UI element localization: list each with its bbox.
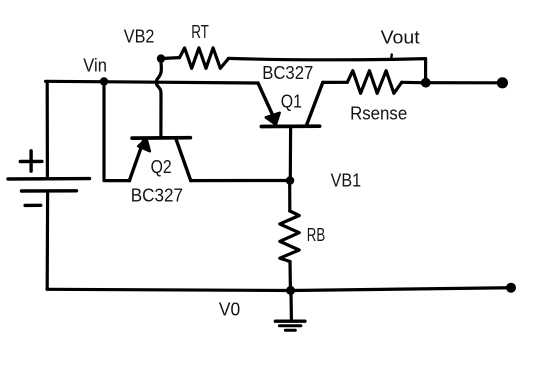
transistor Q1 emitter arrow <box>266 113 280 125</box>
wire RT to Vout node <box>228 58 425 79</box>
wire VB2 down to Q2 base (with kink at crossing) <box>156 62 161 137</box>
battery plus sign <box>20 151 42 171</box>
node Vin junction dot <box>100 77 108 85</box>
wire Vout node to output terminal <box>428 81 498 84</box>
output terminal dot bottom <box>506 283 516 293</box>
transistor Q2 emitter <box>129 140 143 181</box>
transistor Q1 base bar <box>261 124 319 128</box>
svg-text:BC327: BC327 <box>262 62 313 83</box>
node VB2 junction dot <box>157 54 165 62</box>
transistor Q1 collector <box>306 82 323 126</box>
wire Rsense to Vout node <box>402 81 421 85</box>
battery positive plate <box>8 177 90 181</box>
ground symbol <box>275 320 305 323</box>
svg-text:VB2: VB2 <box>124 26 155 47</box>
wire battery top lead <box>46 83 49 177</box>
svg-text:RB: RB <box>307 224 325 245</box>
transistor Q2 emitter arrow <box>138 139 150 151</box>
svg-text:RT: RT <box>191 21 209 42</box>
node V0 junction dot <box>286 286 295 295</box>
transistor Q2 base bar <box>132 136 190 140</box>
wire Vin horizontal rail <box>46 81 258 83</box>
svg-text:VB1: VB1 <box>331 170 362 191</box>
resistor Rsense <box>347 71 401 94</box>
output terminal dot top <box>497 77 508 88</box>
svg-text:Q1: Q1 <box>281 90 302 111</box>
wire Q1 base lead <box>289 128 293 180</box>
svg-text:V0: V0 <box>219 299 240 320</box>
svg-text:Rsense: Rsense <box>350 102 407 123</box>
wire RB bottom lead <box>288 262 292 289</box>
node VB1 junction dot <box>286 176 295 185</box>
wire battery bottom lead <box>46 193 50 288</box>
wire Q2 collector to VB1 <box>191 179 286 182</box>
transistor Q2 collector <box>176 140 191 181</box>
transistor Q1 emitter <box>258 83 274 118</box>
svg-text:BC327: BC327 <box>131 185 183 206</box>
resistor RT <box>180 48 229 68</box>
node Vout junction dot <box>421 78 431 88</box>
resistor RB <box>280 211 299 262</box>
wire VB2 to RT <box>164 56 180 60</box>
battery minus sign <box>25 204 41 207</box>
svg-text:Q2: Q2 <box>151 156 172 177</box>
wire tick under Vout label <box>390 55 393 59</box>
svg-text:Vout: Vout <box>381 27 420 48</box>
wire RB top lead <box>288 184 291 212</box>
wire Vin branch down to Q2 emitter <box>104 83 130 181</box>
wire bottom V0 rail <box>47 288 511 291</box>
svg-text:Vin: Vin <box>83 55 107 76</box>
battery negative plate <box>22 189 77 193</box>
wire ground stub <box>289 293 293 320</box>
wire Q1 collector to Rsense <box>323 81 348 84</box>
